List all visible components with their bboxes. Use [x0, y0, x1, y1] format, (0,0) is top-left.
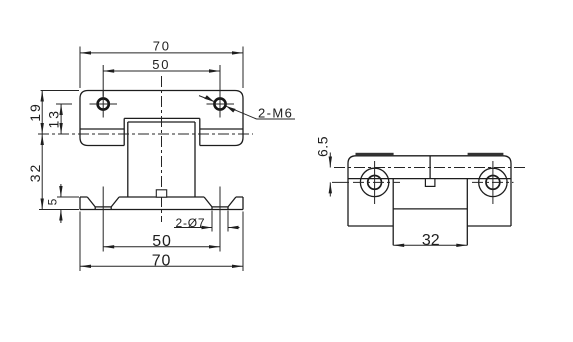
- arrows dim 50 bottom: [103, 245, 114, 248]
- left M6 hole crosshair: [90, 91, 118, 118]
- tongue bar top edge: [124, 117, 200, 119]
- dim 13 vertical line: [60, 104, 62, 134]
- right countersunk hole centerline vertical: [219, 187, 221, 252]
- dim 13 extension line: [56, 103, 72, 105]
- arrows dim 13: [59, 104, 62, 115]
- front view plate inner edge line right: [200, 128, 243, 130]
- side left hole inner circle: [368, 176, 382, 190]
- dim 5 bottom extension (plate bottom extended): [39, 209, 79, 211]
- svg-text:32: 32: [422, 232, 440, 249]
- tongue bar bottom edge: [128, 121, 195, 123]
- side right hole vertical crosshair: [492, 161, 494, 204]
- dim 70 top extension lines: [80, 47, 243, 89]
- side left top tab: [356, 153, 394, 156]
- dim 70 bottom extension lines: [80, 212, 243, 272]
- dim 2-O7 leader lines: [174, 227, 240, 229]
- dim 19/32 vertical line: [41, 91, 43, 210]
- side center block left vertical: [392, 179, 394, 246]
- svg-text:6.5: 6.5: [314, 136, 330, 157]
- side left hole outer circle: [360, 168, 388, 196]
- svg-text:13: 13: [46, 109, 62, 129]
- dim 70 top line: [80, 52, 243, 54]
- side right hole inner circle: [486, 176, 500, 190]
- tongue outer left vertical: [123, 118, 125, 145]
- body inner left vertical: [127, 122, 129, 197]
- arrows dim 19: [41, 91, 44, 102]
- right countersink: [204, 197, 236, 210]
- front horizontal centerline: [38, 76, 253, 222]
- side left hole-center dash-dot crosshair: [353, 181, 400, 183]
- svg-text:70: 70: [152, 252, 171, 269]
- front view top plate outline: [80, 91, 243, 146]
- side notch square: [425, 179, 435, 187]
- arrows dim 50 top: [103, 69, 114, 72]
- front view plate inner edge line left: [80, 128, 124, 130]
- dim 50 top line: [103, 70, 220, 72]
- dim 32 side line: [393, 244, 467, 246]
- arrows dim 32 side: [393, 244, 404, 247]
- dim 6.5 extension line: [332, 181, 349, 183]
- side notch stem: [429, 156, 431, 179]
- M6 hole right circle: [214, 98, 225, 109]
- arrows dim 70 top: [80, 51, 91, 54]
- leader 2-M6 underline: [257, 118, 296, 120]
- dim 70 bottom line: [80, 265, 243, 267]
- svg-text:50: 50: [152, 57, 170, 72]
- side right top tab: [468, 153, 504, 156]
- side horizontal centerline: [334, 168, 526, 183]
- bottom plate outline: [80, 197, 243, 210]
- svg-text:5: 5: [46, 198, 60, 205]
- arrows dim 32: [41, 134, 44, 145]
- dim 5 top extension line: [57, 196, 79, 198]
- left countersink: [87, 197, 119, 210]
- dim texts front: [27, 39, 293, 270]
- dim 50 bottom line: [103, 246, 220, 248]
- M6 hole left circle: [98, 98, 109, 109]
- arrow 2-M6 opposite: [204, 95, 213, 101]
- dim 5 vertical line segments: [60, 184, 62, 223]
- dim 19 extension line: [41, 90, 79, 92]
- front vertical centerline: [161, 76, 163, 222]
- side right hole-center dash-dot crosshair: [472, 181, 514, 183]
- side right hole outer circle: [479, 168, 507, 196]
- svg-text:70: 70: [153, 39, 171, 54]
- side band bottom edge: [393, 208, 467, 210]
- svg-text:32: 32: [27, 163, 43, 183]
- dim 50 top extension lines: [103, 65, 220, 97]
- arrow 2-M6 leader: [226, 106, 235, 112]
- svg-text:2-Ø7: 2-Ø7: [176, 216, 206, 230]
- arrows dim 6.5 outside: [329, 157, 332, 168]
- svg-text:19: 19: [27, 102, 43, 122]
- arrows dim 70 bottom: [80, 265, 91, 268]
- dim 6.5 vertical segments: [329, 153, 331, 197]
- tongue outer right vertical: [199, 118, 201, 145]
- side center block right vertical: [466, 179, 468, 246]
- arrows dim 5 outside: [59, 186, 62, 197]
- arrows dim 2-O7: [202, 226, 213, 229]
- leader 2-M6 line to hole: [226, 106, 256, 119]
- side view outline: [348, 156, 511, 226]
- side step line full width: [348, 178, 511, 180]
- svg-text:50: 50: [152, 233, 171, 250]
- left countersunk hole centerline vertical: [102, 187, 104, 252]
- front center square boss: [156, 190, 166, 197]
- body inner right vertical: [194, 122, 196, 197]
- side left hole vertical crosshair: [374, 161, 376, 204]
- dim 2-O7 extension lines: [212, 211, 228, 232]
- right M6 hole crosshair: [207, 91, 235, 118]
- svg-text:2-M6: 2-M6: [258, 106, 293, 121]
- leader 2-M6 opposite line: [199, 96, 214, 102]
